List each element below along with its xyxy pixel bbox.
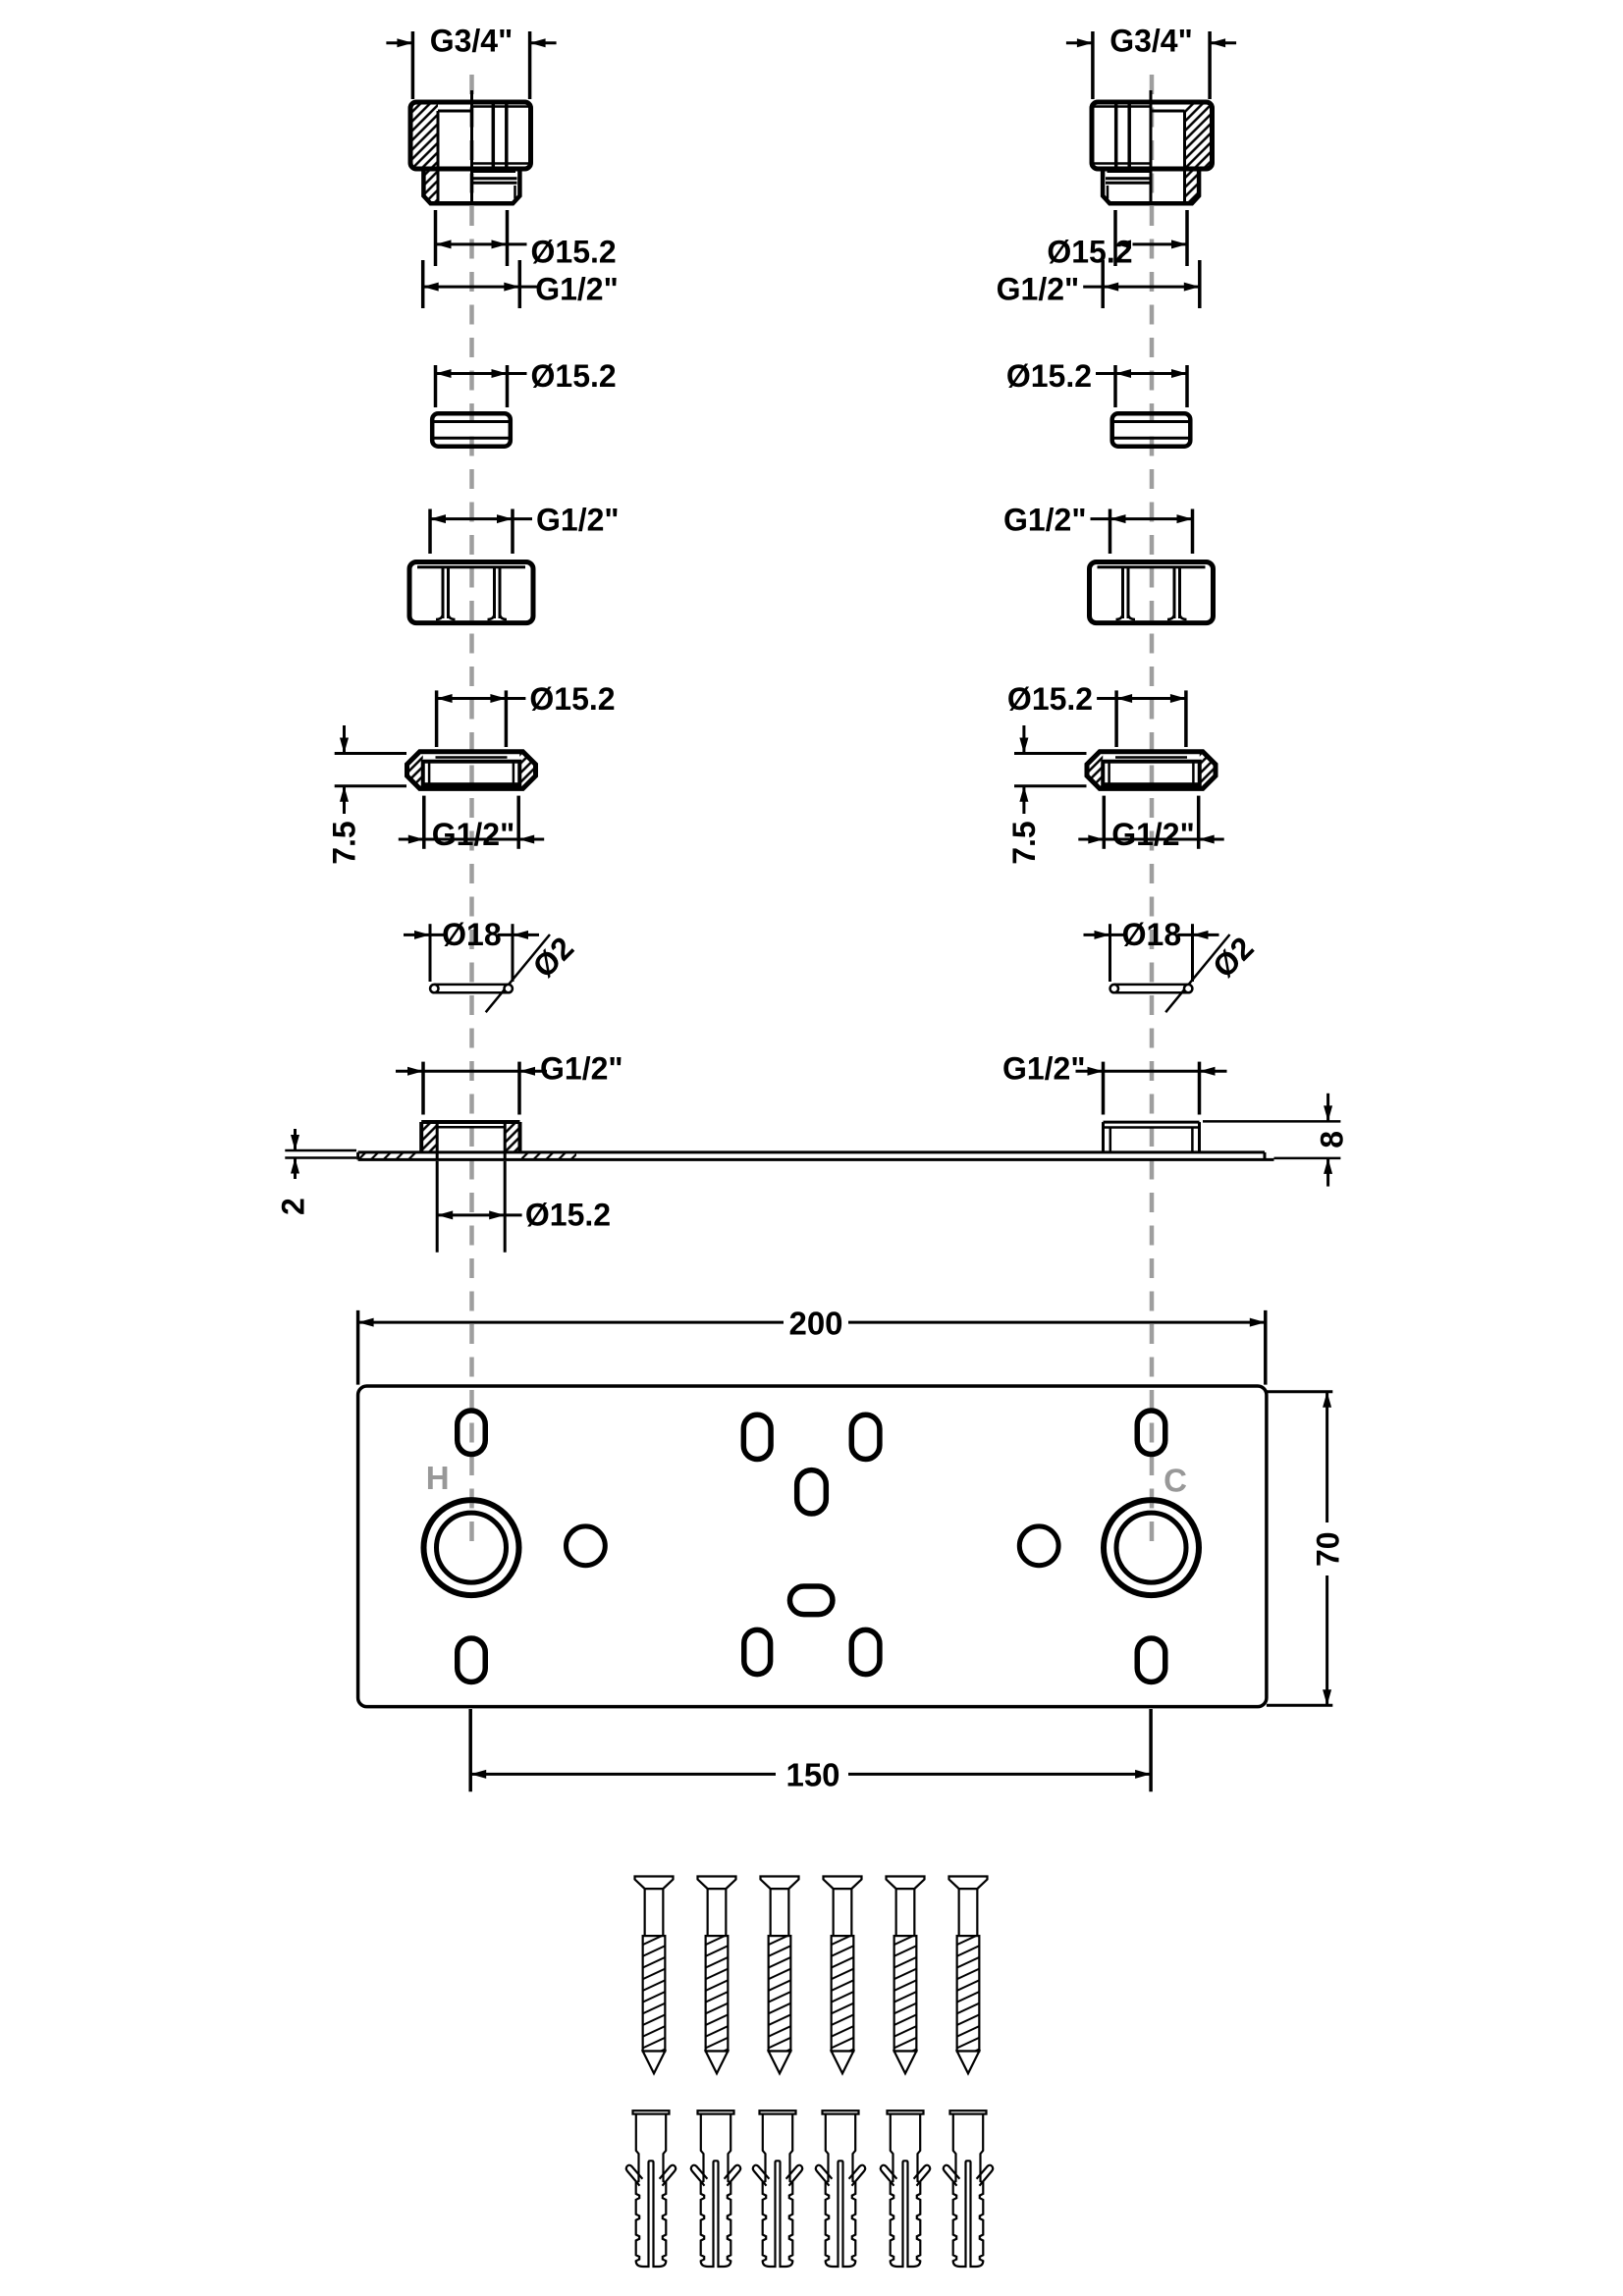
svg-text:200: 200 xyxy=(788,1305,842,1341)
svg-text:G1/2": G1/2" xyxy=(1003,503,1087,538)
svg-text:G1/2": G1/2" xyxy=(432,817,515,852)
svg-text:Ø18: Ø18 xyxy=(1122,917,1181,952)
svg-text:H: H xyxy=(426,1460,450,1496)
svg-text:G3/4": G3/4" xyxy=(1109,24,1193,59)
svg-text:7.5: 7.5 xyxy=(326,821,361,864)
svg-text:G3/4": G3/4" xyxy=(430,24,514,59)
svg-text:70: 70 xyxy=(1310,1531,1345,1567)
svg-text:Ø15.2: Ø15.2 xyxy=(529,681,615,717)
svg-text:Ø15.2: Ø15.2 xyxy=(1047,234,1132,269)
svg-text:Ø15.2: Ø15.2 xyxy=(1006,358,1092,394)
svg-text:2: 2 xyxy=(275,1198,310,1215)
svg-text:Ø15.2: Ø15.2 xyxy=(531,234,617,269)
svg-text:8: 8 xyxy=(1315,1131,1350,1148)
svg-text:G1/2": G1/2" xyxy=(997,272,1080,307)
svg-text:G1/2": G1/2" xyxy=(1111,817,1195,852)
svg-text:G1/2": G1/2" xyxy=(536,503,620,538)
svg-text:G1/2": G1/2" xyxy=(540,1051,623,1087)
svg-text:Ø15.2: Ø15.2 xyxy=(525,1198,611,1233)
svg-text:150: 150 xyxy=(785,1756,839,1792)
svg-text:Ø15.2: Ø15.2 xyxy=(1007,681,1093,717)
svg-text:G1/2": G1/2" xyxy=(535,272,619,307)
svg-text:C: C xyxy=(1163,1463,1187,1499)
svg-text:7.5: 7.5 xyxy=(1006,821,1042,864)
svg-text:G1/2": G1/2" xyxy=(1002,1051,1086,1087)
svg-text:Ø18: Ø18 xyxy=(442,917,501,952)
svg-text:Ø15.2: Ø15.2 xyxy=(531,358,617,394)
